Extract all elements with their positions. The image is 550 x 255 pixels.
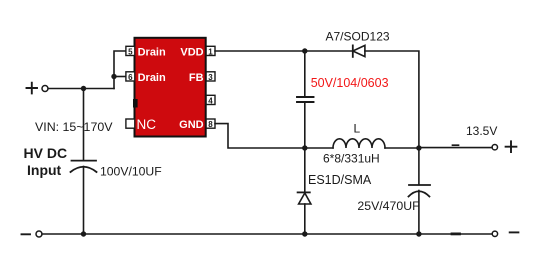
pin 5 — [126, 46, 135, 56]
node input junction — [81, 86, 86, 91]
svg-text:25V/470UF: 25V/470UF — [357, 199, 420, 213]
wire bottom rail — [42, 233, 492, 235]
svg-text:1: 1 — [208, 47, 213, 56]
wire C2 to switch node — [304, 102, 306, 148]
svg-text:6*8/331uH: 6*8/331uH — [323, 152, 380, 166]
svg-text:4: 4 — [208, 96, 213, 105]
pin 8 — [206, 119, 215, 129]
svg-text:VDD: VDD — [180, 46, 203, 58]
capacitor C3 25V/470UF — [409, 148, 431, 234]
svg-text:FB: FB — [189, 72, 204, 84]
svg-text:GND: GND — [179, 119, 204, 131]
svg-text:HV DC: HV DC — [24, 145, 68, 161]
wire artifact dash bottom — [452, 232, 460, 235]
wire input+ to corner — [48, 88, 114, 90]
pin 3 — [206, 72, 215, 82]
wire diode to corner down — [365, 51, 419, 148]
wire junction to pin6 — [114, 76, 126, 78]
node rail-C3 — [416, 231, 421, 236]
IC U1 body — [135, 38, 206, 137]
node switch junction left — [302, 145, 307, 150]
svg-text:100V/10UF: 100V/10UF — [100, 164, 162, 178]
U1 pin labels — [137, 46, 204, 131]
svg-text:VIN: 15~170V: VIN: 15~170V — [35, 120, 113, 134]
svg-text:A7/SOD123: A7/SOD123 — [326, 30, 390, 44]
output - terminal — [22, 231, 43, 237]
pin 4 — [206, 95, 215, 105]
label HV DC Input — [24, 145, 68, 178]
diode D2 ES1D/SMA — [298, 148, 311, 234]
capacitor C2 50V/104 — [297, 97, 314, 102]
inductor L — [333, 139, 385, 148]
output + terminal — [492, 141, 516, 152]
wire junction down to Cin — [83, 89, 85, 161]
svg-text:Input: Input — [27, 162, 62, 178]
wire artifact dash top — [453, 144, 459, 146]
pin 1 — [206, 46, 215, 56]
output - right terminal — [492, 231, 518, 236]
wire junction down to C2 — [304, 51, 306, 97]
node output junction — [416, 145, 421, 150]
node drain junction — [111, 74, 116, 79]
wire Cin to bottom rail — [83, 167, 85, 235]
svg-text:L: L — [354, 122, 361, 136]
svg-text:ES1D/SMA: ES1D/SMA — [308, 173, 372, 187]
wire VDD to corner — [215, 50, 353, 52]
svg-text:50V/104/0603: 50V/104/0603 — [311, 76, 389, 90]
svg-text:Drain: Drain — [138, 46, 166, 58]
diode D1 A7/SOD123 — [353, 45, 365, 57]
svg-text:6: 6 — [128, 73, 133, 82]
input + terminal — [27, 83, 49, 94]
svg-text:5: 5 — [128, 47, 133, 56]
svg-text:Drain: Drain — [138, 72, 166, 84]
wire corner up to pin5 — [114, 51, 126, 89]
pin 6 — [126, 72, 135, 82]
node VDD-cap junction — [302, 48, 307, 53]
capacitor C1 100V/10UF — [71, 161, 97, 172]
node rail-Cin — [81, 231, 86, 236]
svg-text:8: 8 — [208, 120, 213, 129]
pin 7 stub — [133, 99, 138, 108]
svg-text:NC: NC — [137, 117, 157, 132]
node rail-D2 — [302, 231, 307, 236]
svg-text:3: 3 — [208, 73, 213, 82]
wire GND pin to switch rail — [215, 124, 333, 148]
pin NC — [126, 119, 135, 128]
svg-text:13.5V: 13.5V — [466, 124, 497, 138]
wire inductor to output — [385, 147, 492, 149]
